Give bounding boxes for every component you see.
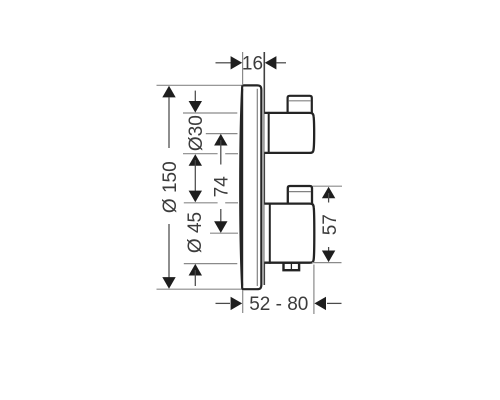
dim 52-80 right arrow bbox=[314, 297, 341, 310]
dim Ø30 bottom arrow / Ø45 top arrow shared segment bbox=[189, 154, 202, 202]
bottom handle body bbox=[264, 204, 314, 263]
dim 16 right arrow bbox=[265, 56, 286, 69]
plate back inner line bbox=[256, 89, 258, 286]
dim 57 label bbox=[320, 214, 341, 235]
dim 16 left arrow bbox=[216, 56, 243, 69]
plate bottom extension line bbox=[157, 288, 244, 290]
bottom handle grip chamfer line bbox=[289, 191, 311, 193]
wall line (finished wall surface) bbox=[263, 52, 265, 285]
escutcheon plate side view bbox=[240, 85, 261, 289]
dim Ø30 label bbox=[186, 115, 207, 151]
bottom connector notch bbox=[284, 263, 300, 271]
dim 74 line and arrows bbox=[214, 134, 227, 233]
dim 57 line and arrows bbox=[322, 187, 335, 262]
svg-text:57: 57 bbox=[320, 214, 341, 235]
dim 52-80 left extension line bbox=[242, 290, 244, 313]
dim 57 bottom extension line bbox=[312, 262, 342, 264]
dim 74 top extension line bbox=[206, 133, 238, 135]
svg-text:16: 16 bbox=[242, 54, 263, 75]
dim Ø150 line and arrows bbox=[162, 86, 175, 289]
dim Ø30 top arrow (outside, pointing down) bbox=[189, 91, 202, 113]
dim Ø45 bottom arrow (outside, pointing up) bbox=[189, 264, 202, 286]
top handle body bbox=[264, 113, 314, 153]
svg-text:Ø 150: Ø 150 bbox=[160, 161, 181, 213]
dim 57 top extension line bbox=[313, 185, 342, 187]
dim Ø30 bottom extension line bbox=[183, 153, 238, 155]
svg-text:Ø 45: Ø 45 bbox=[185, 212, 206, 253]
dim 74 bottom extension line bbox=[210, 232, 238, 234]
top handle grip bbox=[288, 96, 312, 113]
dim 16 left extension line bbox=[242, 52, 244, 85]
bottom handle joint line bbox=[269, 203, 271, 264]
dim Ø45 label bbox=[185, 212, 206, 253]
plate top extension line bbox=[157, 84, 244, 86]
dim 52-80 left arrow bbox=[216, 297, 243, 310]
dim 52-80 right extension line bbox=[313, 265, 315, 315]
top handle joint line bbox=[268, 112, 270, 154]
bottom handle grip bbox=[288, 186, 312, 204]
dim Ø45 top extension line bbox=[184, 202, 238, 204]
top handle grip chamfer line bbox=[289, 100, 311, 102]
svg-text:52 - 80: 52 - 80 bbox=[249, 294, 308, 315]
svg-text:74: 74 bbox=[212, 176, 233, 198]
svg-text:Ø30: Ø30 bbox=[186, 115, 207, 151]
dim Ø150 label bbox=[160, 161, 181, 213]
dim Ø30 top extension line bbox=[183, 112, 237, 114]
dim 74 label bbox=[212, 176, 233, 198]
dim Ø45 bottom extension line bbox=[184, 263, 238, 265]
dim 16 label bbox=[242, 54, 263, 75]
dim 52-80 label bbox=[249, 294, 308, 315]
